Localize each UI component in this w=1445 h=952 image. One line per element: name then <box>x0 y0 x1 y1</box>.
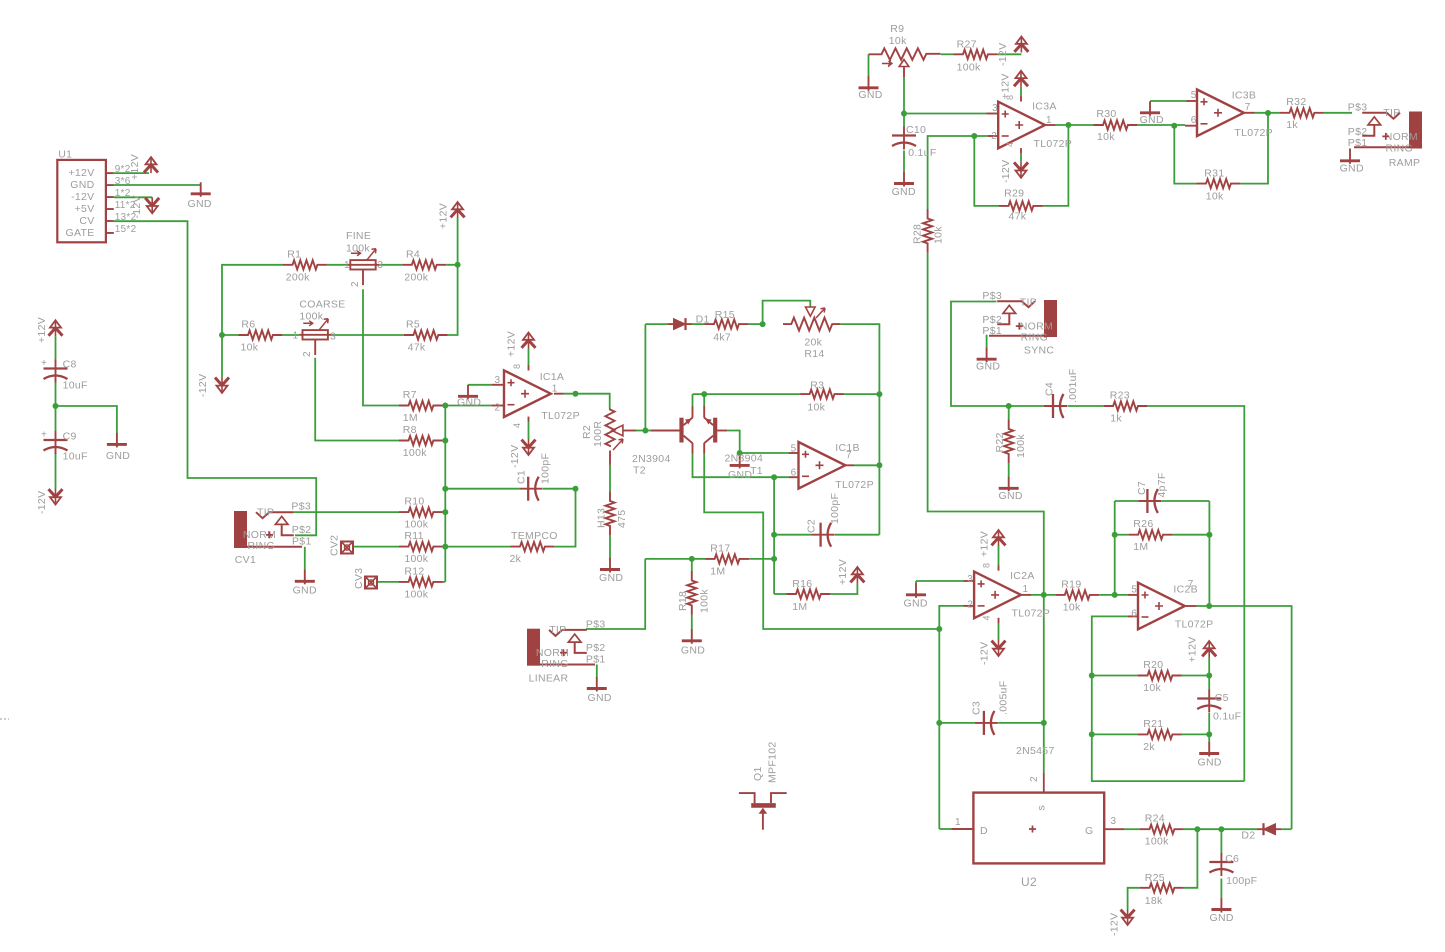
svg-text:RING: RING <box>541 658 568 670</box>
svg-text:2: 2 <box>1029 776 1040 782</box>
svg-text:10k: 10k <box>1097 131 1115 143</box>
svg-text:+12V: +12V <box>506 331 518 357</box>
svg-text:P$3: P$3 <box>291 501 311 513</box>
svg-text:6: 6 <box>791 468 797 479</box>
svg-text:+: + <box>41 358 47 369</box>
svg-text:R15: R15 <box>715 309 735 321</box>
svg-text:GND: GND <box>1198 757 1222 769</box>
svg-text:100k: 100k <box>699 589 711 613</box>
svg-text:4k7: 4k7 <box>713 332 731 344</box>
svg-text:CV2: CV2 <box>329 535 341 556</box>
svg-text:SYNC: SYNC <box>1024 345 1054 357</box>
svg-text:R30: R30 <box>1096 108 1116 120</box>
svg-text:TEMPCO: TEMPCO <box>511 530 558 542</box>
svg-text:P$3: P$3 <box>1348 101 1368 113</box>
svg-text:D1: D1 <box>696 314 710 326</box>
svg-text:100k: 100k <box>404 588 428 600</box>
svg-text:2: 2 <box>967 600 973 611</box>
svg-text:C6: C6 <box>1225 853 1239 865</box>
svg-text:3: 3 <box>992 103 998 114</box>
svg-text:10k: 10k <box>1063 601 1081 613</box>
svg-text:H13: H13 <box>596 508 608 528</box>
svg-text:C9: C9 <box>63 431 77 443</box>
svg-text:+12V: +12V <box>979 531 991 557</box>
svg-text:P$2: P$2 <box>292 524 312 536</box>
svg-text:15*2: 15*2 <box>115 224 137 235</box>
svg-text:10k: 10k <box>1206 190 1224 202</box>
svg-text:100k: 100k <box>957 62 981 74</box>
svg-text:R27: R27 <box>957 39 977 51</box>
svg-text:R6: R6 <box>241 319 255 331</box>
svg-text:D: D <box>980 825 988 837</box>
svg-text:5: 5 <box>1131 584 1137 595</box>
svg-text:R11: R11 <box>404 530 423 542</box>
svg-text:10k: 10k <box>241 342 259 354</box>
svg-text:IC2A: IC2A <box>1010 570 1035 582</box>
svg-text:G: G <box>1085 825 1093 837</box>
svg-text:R3: R3 <box>810 380 824 392</box>
svg-text:RAMP: RAMP <box>1389 157 1421 169</box>
svg-text:R31: R31 <box>1204 167 1224 179</box>
svg-text:6: 6 <box>1131 608 1137 619</box>
svg-text:100pF: 100pF <box>829 493 841 524</box>
svg-text:1: 1 <box>552 384 558 395</box>
svg-text:1M: 1M <box>403 412 418 424</box>
svg-text:C2: C2 <box>806 519 818 533</box>
svg-text:2k: 2k <box>510 553 522 565</box>
svg-text:1: 1 <box>1046 115 1052 126</box>
svg-text:-12V: -12V <box>197 374 209 397</box>
svg-text:8: 8 <box>512 364 522 369</box>
svg-text:IC1A: IC1A <box>540 371 565 383</box>
svg-text:R22: R22 <box>994 432 1006 452</box>
svg-text:RING: RING <box>1021 331 1048 343</box>
svg-text:GND: GND <box>976 361 1000 373</box>
svg-text:TL072P: TL072P <box>1175 619 1214 631</box>
svg-text:R14: R14 <box>804 348 824 360</box>
svg-text:P$1: P$1 <box>1348 137 1368 149</box>
svg-text:GND: GND <box>904 598 928 610</box>
svg-text:3: 3 <box>330 332 336 343</box>
svg-text:IC3A: IC3A <box>1032 101 1057 113</box>
svg-text:GND: GND <box>588 692 612 704</box>
svg-text:GND: GND <box>1340 163 1364 175</box>
svg-text:2: 2 <box>350 281 361 287</box>
svg-text:100pF: 100pF <box>1226 875 1257 887</box>
svg-text:2: 2 <box>302 351 313 357</box>
svg-text:C5: C5 <box>1215 692 1229 704</box>
svg-text:1M: 1M <box>792 601 807 613</box>
svg-text:GATE: GATE <box>65 227 94 239</box>
svg-text:R32: R32 <box>1286 96 1306 108</box>
svg-text:s: s <box>1036 805 1048 811</box>
svg-text:-12V: -12V <box>997 43 1009 66</box>
svg-text:P$1: P$1 <box>982 325 1002 337</box>
svg-text:4: 4 <box>982 615 992 620</box>
svg-text:10uF: 10uF <box>63 451 88 463</box>
svg-text:+5V: +5V <box>75 203 95 215</box>
svg-text:1: 1 <box>344 260 350 271</box>
svg-text:P$3: P$3 <box>586 618 606 630</box>
svg-text:GND: GND <box>858 89 882 101</box>
svg-text:R16: R16 <box>792 578 812 590</box>
svg-text:R20: R20 <box>1143 659 1163 671</box>
svg-text:6: 6 <box>1191 115 1197 126</box>
svg-text:+12V: +12V <box>36 317 48 343</box>
svg-text:GND: GND <box>457 397 481 409</box>
svg-text:GND: GND <box>1140 114 1164 126</box>
svg-text:10k: 10k <box>807 402 825 414</box>
svg-text:TIP: TIP <box>1020 297 1037 309</box>
svg-text:5: 5 <box>791 444 797 455</box>
svg-text:C8: C8 <box>63 359 77 371</box>
svg-text:10k: 10k <box>933 226 945 244</box>
svg-text:TIP: TIP <box>257 507 274 519</box>
svg-text:TIP: TIP <box>549 624 566 636</box>
svg-text:R9: R9 <box>890 23 904 35</box>
svg-text:R5: R5 <box>406 319 420 331</box>
svg-text:D2: D2 <box>1241 830 1255 842</box>
svg-text:IC3B: IC3B <box>1232 90 1257 102</box>
svg-text:RING: RING <box>1386 142 1413 154</box>
svg-text:4p7F: 4p7F <box>1156 472 1168 497</box>
svg-text:100k: 100k <box>1015 434 1027 458</box>
svg-text:1: 1 <box>293 331 299 342</box>
svg-text:.005uF: .005uF <box>998 681 1010 716</box>
svg-text:R25: R25 <box>1145 872 1165 884</box>
svg-text:200k: 200k <box>404 271 428 283</box>
svg-text:47k: 47k <box>408 342 426 354</box>
svg-text:1*2: 1*2 <box>115 188 131 199</box>
svg-text:475: 475 <box>616 510 628 528</box>
svg-text:-12V: -12V <box>979 642 991 665</box>
svg-text:100k: 100k <box>403 447 427 459</box>
svg-text:3: 3 <box>967 574 973 585</box>
svg-text:100k: 100k <box>299 311 323 323</box>
svg-text:FINE: FINE <box>346 230 371 242</box>
svg-text:R7: R7 <box>403 389 417 401</box>
svg-text:100k: 100k <box>1145 836 1169 848</box>
svg-text:CV3: CV3 <box>353 568 365 589</box>
svg-text:100k: 100k <box>346 243 370 255</box>
svg-text:GND: GND <box>1210 912 1234 924</box>
svg-text:-12V: -12V <box>36 491 48 514</box>
svg-text:RING: RING <box>248 540 275 552</box>
svg-text:U2: U2 <box>1021 875 1037 889</box>
svg-text:+12V: +12V <box>438 203 450 229</box>
svg-text:-12V: -12V <box>1109 913 1121 936</box>
svg-text:10k: 10k <box>889 35 907 47</box>
svg-text:T2: T2 <box>633 465 646 477</box>
svg-text:3: 3 <box>377 260 383 271</box>
svg-text:GND: GND <box>70 179 94 191</box>
svg-text:GND: GND <box>999 490 1023 502</box>
svg-text:2N3904: 2N3904 <box>725 453 764 465</box>
svg-text:C1: C1 <box>516 470 528 484</box>
svg-text:P$2: P$2 <box>1348 126 1368 138</box>
svg-text:TL072P: TL072P <box>1034 138 1073 150</box>
svg-text:0.1uF: 0.1uF <box>908 147 936 159</box>
svg-text:+12V: +12V <box>129 154 141 180</box>
svg-text:-12V: -12V <box>509 445 521 468</box>
svg-text:2N5457: 2N5457 <box>1016 745 1055 757</box>
svg-text:18k: 18k <box>1145 895 1163 907</box>
svg-text:1: 1 <box>955 817 961 828</box>
svg-text:100pF: 100pF <box>540 453 552 484</box>
svg-text:P$1: P$1 <box>292 536 312 548</box>
svg-text:1M: 1M <box>710 565 725 577</box>
svg-text:IC2B: IC2B <box>1173 583 1198 595</box>
svg-text:100R: 100R <box>592 421 604 447</box>
svg-text:20k: 20k <box>804 337 822 349</box>
svg-text:R21: R21 <box>1143 718 1163 730</box>
svg-text:CV: CV <box>79 215 94 227</box>
svg-text:TL072P: TL072P <box>835 479 874 491</box>
svg-text:GND: GND <box>293 585 317 597</box>
svg-text:+12V: +12V <box>837 559 849 585</box>
svg-text:0.1uF: 0.1uF <box>1213 711 1241 723</box>
svg-text:GND: GND <box>106 450 130 462</box>
svg-text:GND: GND <box>599 572 623 584</box>
svg-text:C3: C3 <box>971 701 983 715</box>
svg-text:R18: R18 <box>677 591 689 611</box>
svg-text:4: 4 <box>512 423 522 428</box>
svg-text:7: 7 <box>1245 102 1251 113</box>
svg-text:IC1B: IC1B <box>835 442 860 454</box>
svg-text:2N3904: 2N3904 <box>632 453 671 465</box>
svg-text:P$2: P$2 <box>586 642 606 654</box>
svg-text:2k: 2k <box>1143 741 1155 753</box>
svg-text:TIP: TIP <box>1383 107 1400 119</box>
svg-text:R8: R8 <box>403 424 417 436</box>
svg-text:1M: 1M <box>1133 541 1148 553</box>
svg-text:GND: GND <box>188 198 212 210</box>
svg-text:100k: 100k <box>404 519 428 531</box>
svg-text:10uF: 10uF <box>63 380 88 392</box>
svg-text:COARSE: COARSE <box>299 299 345 311</box>
svg-text:100k: 100k <box>404 553 428 565</box>
svg-text:P$2: P$2 <box>982 314 1002 326</box>
svg-text:TL072P: TL072P <box>541 410 580 422</box>
svg-text:C4: C4 <box>1044 382 1056 396</box>
svg-text:.001uF: .001uF <box>1067 369 1079 404</box>
svg-text:R17: R17 <box>710 542 730 554</box>
svg-text:-12V: -12V <box>1000 160 1012 183</box>
svg-text:MPF102: MPF102 <box>767 742 779 783</box>
svg-text:R12: R12 <box>404 565 424 577</box>
svg-text:3: 3 <box>1111 816 1117 827</box>
svg-text:P$1: P$1 <box>586 653 606 665</box>
svg-text:TL072P: TL072P <box>1234 127 1273 139</box>
svg-text:LINEAR: LINEAR <box>529 673 569 685</box>
svg-text:47k: 47k <box>1009 211 1027 223</box>
svg-text:3: 3 <box>495 375 501 386</box>
svg-text:GND: GND <box>681 645 705 657</box>
svg-text:2: 2 <box>495 403 501 414</box>
svg-text:200k: 200k <box>286 271 310 283</box>
svg-text:10k: 10k <box>1143 682 1161 694</box>
svg-text:1: 1 <box>1023 584 1029 595</box>
svg-text:+12V: +12V <box>1187 636 1199 662</box>
svg-text:C10: C10 <box>906 124 926 136</box>
svg-text:R24: R24 <box>1145 813 1165 825</box>
svg-text:P$3: P$3 <box>982 290 1002 302</box>
svg-text:R4: R4 <box>406 248 420 260</box>
svg-text:C7: C7 <box>1136 481 1148 495</box>
svg-text:GND: GND <box>728 469 752 481</box>
svg-text:R26: R26 <box>1133 518 1153 530</box>
svg-text:2: 2 <box>991 131 997 142</box>
svg-text:Q1: Q1 <box>752 766 764 781</box>
svg-text:+12V: +12V <box>1000 73 1012 99</box>
svg-text:R29: R29 <box>1004 188 1024 200</box>
svg-text:4: 4 <box>1005 142 1015 147</box>
svg-text:1k: 1k <box>1110 413 1122 425</box>
svg-text:1k: 1k <box>1286 119 1298 131</box>
svg-text:-12V: -12V <box>71 191 94 203</box>
svg-text:R1: R1 <box>287 248 301 260</box>
svg-text:U1: U1 <box>58 149 72 161</box>
svg-text:-12V: -12V <box>131 195 143 218</box>
svg-text:+: + <box>41 430 47 441</box>
svg-text:8: 8 <box>982 563 992 568</box>
svg-text:R10: R10 <box>404 496 424 508</box>
svg-text:TL072P: TL072P <box>1012 607 1051 619</box>
svg-text:NORM: NORM <box>1385 131 1418 143</box>
svg-text:5: 5 <box>1191 90 1197 101</box>
svg-text:R28: R28 <box>912 224 924 244</box>
svg-text:+12V: +12V <box>68 167 94 179</box>
svg-text:R23: R23 <box>1110 390 1130 402</box>
svg-text:R19: R19 <box>1061 578 1081 590</box>
svg-text:CV1: CV1 <box>235 554 256 566</box>
svg-text:GND: GND <box>892 186 916 198</box>
